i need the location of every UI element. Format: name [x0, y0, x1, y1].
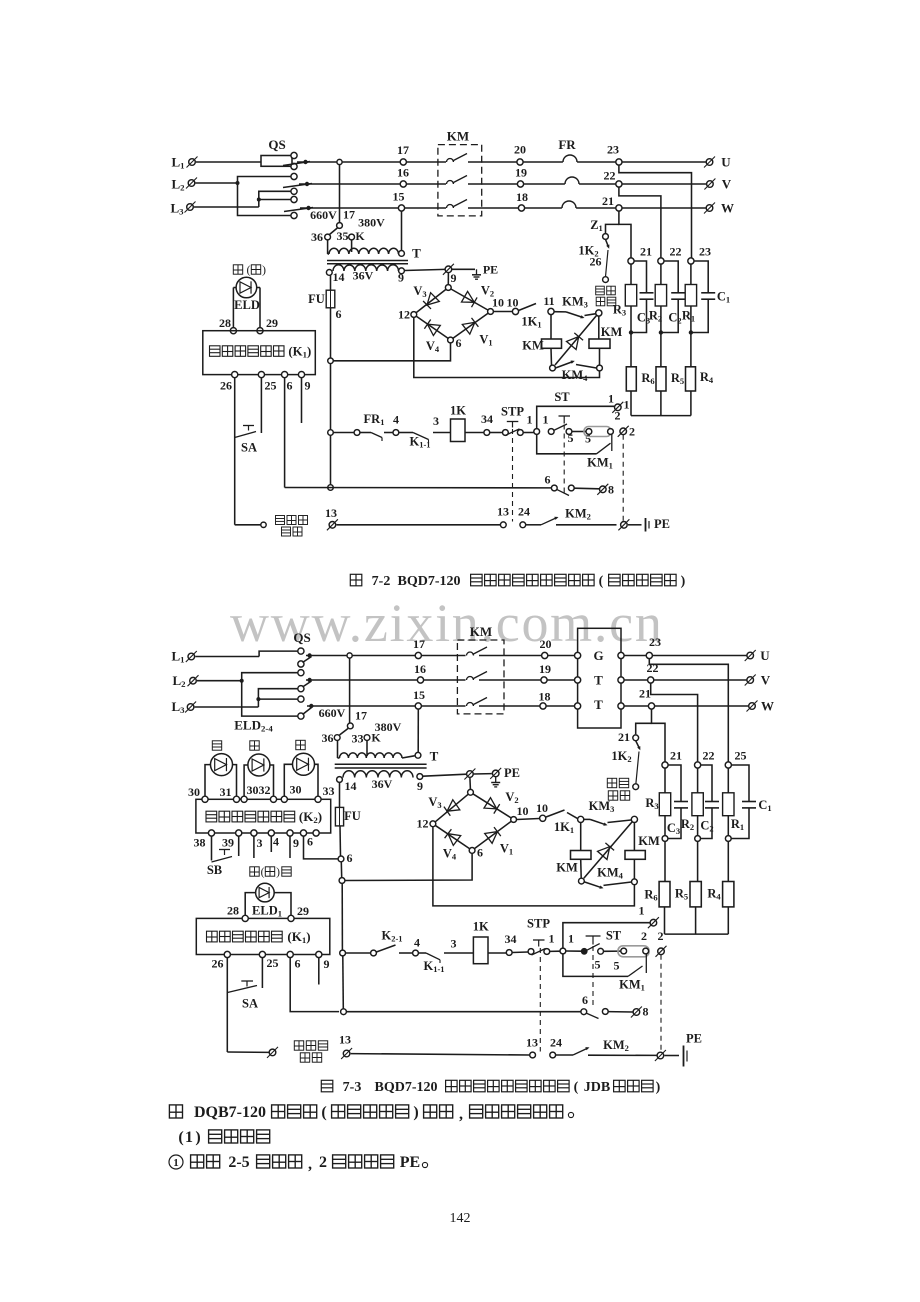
svg-text:26: 26: [590, 255, 602, 269]
svg-text:K1-1: K1-1: [409, 435, 430, 450]
wire: [580, 859, 583, 878]
node 34: [484, 430, 490, 436]
node 21 plug: [633, 735, 639, 741]
svg-text:K: K: [355, 229, 365, 243]
svg-text:V: V: [761, 673, 771, 688]
transformer T primary lead left: [327, 240, 329, 254]
box K1 leakage interlock: [203, 331, 315, 375]
wire to plug 1: [537, 406, 615, 428]
node 22 network fig3: [695, 762, 701, 768]
wire 9 stub fig3: [318, 958, 320, 985]
bridge edge 6-10: [451, 312, 491, 341]
capacitor plates fig3: [674, 801, 688, 803]
svg-text:1K1: 1K1: [554, 820, 574, 835]
node 21 network: [628, 258, 634, 264]
svg-text:12: 12: [417, 817, 429, 831]
node KM4 right: [597, 365, 603, 371]
contact KM3 fig3: [584, 818, 590, 820]
wire: [550, 950, 560, 952]
svg-text:(: (: [574, 1080, 579, 1095]
wire: [399, 952, 413, 954]
wire resistor to junction: [660, 306, 662, 331]
node gate junction: [578, 816, 584, 822]
svg-text:17: 17: [355, 709, 367, 723]
wire coil to node: [550, 348, 553, 365]
button STP dashed: [512, 429, 514, 522]
junction control row: [328, 430, 334, 436]
relay FR heater 2: [565, 177, 579, 184]
terminal 36 fig3: [334, 735, 340, 741]
lamp leads: [205, 765, 211, 800]
wire 15 down: [417, 709, 419, 752]
svg-text:36: 36: [322, 731, 334, 745]
wire secondary to PE node: [404, 269, 444, 270]
thyristor V: [555, 316, 597, 366]
wire R6 bottom: [630, 391, 632, 416]
switch ST actuator: [559, 415, 571, 417]
terminal V: [704, 179, 715, 190]
svg-text:2: 2: [319, 1154, 327, 1171]
wire 21 split: [652, 709, 666, 762]
node 11: [548, 308, 554, 314]
node: [544, 949, 550, 955]
svg-text:16: 16: [397, 166, 409, 180]
svg-text:22: 22: [670, 245, 682, 259]
junction 6 fig3: [338, 856, 344, 862]
svg-text:11: 11: [543, 294, 554, 308]
svg-text:9: 9: [417, 779, 423, 793]
svg-text:10: 10: [517, 804, 529, 818]
wire negative rail: [414, 318, 600, 378]
resistor R4: [686, 367, 696, 391]
wire 25 down: [260, 378, 262, 433]
wire 11 to coil KM: [550, 315, 552, 339]
dashed plug2 down fig3: [660, 955, 662, 1052]
svg-text:T: T: [430, 749, 439, 764]
resistor R6 fig3: [659, 882, 670, 907]
svg-text:23: 23: [607, 143, 619, 157]
relay 1K coil: [451, 419, 466, 442]
wire: [351, 1054, 530, 1055]
svg-text:17: 17: [413, 637, 425, 651]
wire junction down: [660, 333, 662, 367]
transformer T primary winding: [329, 248, 399, 254]
wire 26 down: [234, 378, 236, 525]
svg-text:10: 10: [536, 801, 548, 815]
plug node 1 fig3: [648, 917, 659, 928]
wire: [346, 952, 371, 954]
contactor KM main contact: [447, 181, 454, 185]
svg-text:20: 20: [540, 637, 552, 651]
svg-text:): ): [195, 1129, 200, 1146]
svg-text:7-2: 7-2: [372, 574, 391, 589]
node 5a fig3: [598, 948, 604, 954]
plug node 2: [618, 426, 629, 437]
svg-text:SB: SB: [207, 863, 222, 877]
wire R5 bottom: [660, 391, 662, 416]
node 12 fig3: [430, 821, 436, 827]
wire capacitor to junction: [633, 299, 647, 332]
svg-text:7-3: 7-3: [343, 1080, 362, 1095]
transformer T core: [327, 260, 408, 262]
node 34 fig3: [506, 950, 512, 956]
svg-text:36V: 36V: [353, 269, 374, 283]
svg-text:22: 22: [604, 169, 616, 183]
wire FR to 23: [577, 161, 616, 163]
capacitor plates fig3: [705, 801, 719, 803]
contact KM2: [526, 524, 541, 526]
bridge edge 9-12: [414, 288, 449, 315]
bridge edge 12-6: [414, 315, 451, 341]
svg-text:K1-1: K1-1: [423, 959, 444, 974]
wire 23 to col 25: [649, 659, 728, 762]
wire phase1: [306, 655, 466, 657]
svg-text:21: 21: [670, 749, 682, 763]
wire node-capacitor: [731, 765, 749, 801]
wire node to capacitor: [634, 261, 646, 293]
svg-text:28: 28: [227, 904, 239, 918]
node: [540, 815, 546, 821]
node: [643, 948, 649, 954]
device GTT box: [578, 628, 621, 728]
K2 bottom terminals: [208, 830, 214, 836]
contact K1-1: [413, 433, 429, 440]
node 10 right: [488, 309, 494, 315]
wire L3 to QS: [194, 206, 259, 208]
relay 1K coil fig3: [473, 937, 488, 964]
svg-text:L3: L3: [170, 201, 184, 217]
svg-text:2-5: 2-5: [228, 1154, 249, 1171]
svg-text:C1: C1: [758, 798, 771, 813]
label white: [296, 740, 305, 749]
junction rail fig3: [339, 878, 345, 884]
svg-text:Z1: Z1: [590, 218, 603, 233]
body line 3: [169, 1155, 183, 1169]
svg-text:660V: 660V: [319, 706, 346, 720]
wire FU down: [330, 308, 332, 430]
plug node 8 fig3: [631, 1007, 642, 1018]
svg-text:R6: R6: [641, 371, 654, 386]
terminal 36: [325, 234, 331, 240]
svg-text:R4: R4: [700, 370, 714, 385]
wire phase2 QS to KM: [299, 183, 446, 185]
contactor KM contact fig3: [467, 703, 474, 707]
wire down: [697, 841, 699, 881]
svg-text:33: 33: [352, 732, 364, 746]
contact KM3: [566, 312, 583, 318]
svg-text:FU: FU: [308, 292, 325, 306]
wire node-capacitor: [668, 765, 681, 801]
svg-text:4: 4: [414, 936, 420, 950]
wire to plug1 fig3: [563, 923, 650, 948]
svg-text:13: 13: [526, 1036, 538, 1050]
GTT right terminals: [618, 652, 624, 658]
wire node to resistor: [690, 264, 692, 284]
caption figure 7-3: [321, 1080, 660, 1095]
svg-text:ST: ST: [554, 390, 570, 404]
svg-text:5: 5: [614, 959, 620, 973]
wire: [399, 432, 413, 434]
svg-text:V4: V4: [443, 847, 457, 862]
svg-text:25: 25: [735, 749, 747, 763]
svg-text:STP: STP: [527, 917, 550, 931]
svg-text:KM: KM: [556, 861, 578, 875]
svg-text:R1: R1: [682, 309, 695, 324]
bridge edges fig3: [433, 792, 471, 824]
capacitor C2 plates: [671, 292, 685, 294]
svg-text:19: 19: [539, 662, 551, 676]
fuse FU fig3: [335, 807, 343, 826]
wire to Z1: [606, 224, 619, 233]
blade: [586, 1013, 599, 1019]
svg-text:15: 15: [393, 190, 405, 204]
svg-text:KM: KM: [447, 129, 469, 144]
wire 23-U: [652, 655, 747, 657]
box K2 semiconductor protect: [196, 799, 331, 833]
contact KM4 fig3: [584, 882, 602, 888]
node: [608, 429, 614, 435]
wire resistor-junction: [727, 816, 729, 836]
wire to ground: [452, 268, 475, 270]
svg-text:KM3: KM3: [589, 799, 615, 814]
svg-text:25: 25: [265, 379, 277, 393]
wire 22 to network col2: [619, 187, 661, 258]
svg-text:KM4: KM4: [562, 368, 589, 383]
svg-text:K2-1: K2-1: [381, 929, 402, 944]
switch QS blade 1: [283, 162, 310, 166]
wire: [604, 950, 621, 952]
node tap: [337, 223, 343, 229]
node 9 slashed: [443, 264, 454, 275]
svg-text:13: 13: [497, 505, 509, 519]
wire node to resistor: [630, 264, 632, 284]
svg-text:35: 35: [337, 229, 349, 243]
svg-text:R5: R5: [675, 887, 688, 902]
contactor KM contact fig3: [467, 652, 474, 656]
switch QS pole 3 bracket: [259, 191, 291, 207]
svg-text:KM1: KM1: [619, 978, 645, 993]
node 21 network fig3: [662, 762, 668, 768]
terminal V fig3: [745, 675, 756, 686]
svg-text:142: 142: [450, 1211, 471, 1226]
wire down: [664, 841, 666, 881]
svg-text:V: V: [722, 177, 732, 192]
svg-text:KM: KM: [522, 339, 544, 353]
diode V3 fig3: [447, 800, 460, 811]
svg-text:10: 10: [507, 296, 519, 310]
svg-text:21: 21: [639, 687, 651, 701]
contact 1K1: [519, 304, 537, 311]
wire: [665, 1055, 680, 1057]
contact KM2 fig3: [556, 1054, 573, 1056]
wire node-capacitor: [701, 765, 712, 801]
svg-text:8: 8: [608, 483, 614, 497]
wire network bottom rail: [631, 415, 691, 417]
wire tap down: [349, 658, 351, 723]
wire phase3: [307, 705, 466, 707]
svg-text:T: T: [412, 246, 421, 261]
wire FU down fig3: [339, 826, 342, 856]
node: [354, 430, 360, 436]
svg-text:DQB7-120: DQB7-120: [194, 1104, 266, 1121]
transformer primary lead left: [337, 741, 339, 759]
svg-text:T: T: [594, 673, 603, 688]
svg-text:KM: KM: [638, 834, 660, 848]
svg-text:6: 6: [545, 473, 551, 487]
plug node PE row: [618, 519, 629, 530]
svg-text:(: (: [321, 1104, 326, 1121]
svg-text:R3: R3: [645, 796, 658, 811]
svg-text:9: 9: [451, 271, 457, 285]
node junction L1 tap: [347, 653, 352, 658]
svg-text:(K2): (K2): [299, 809, 322, 825]
svg-text:KM2: KM2: [565, 507, 591, 522]
svg-text:): ): [262, 263, 266, 277]
svg-text:PE: PE: [504, 766, 520, 780]
svg-text:STP: STP: [501, 405, 524, 419]
svg-text:): ): [276, 867, 280, 879]
svg-text:6: 6: [477, 846, 483, 860]
switch QS pole2 bracket: [242, 673, 298, 716]
wire capacitor-junction: [667, 808, 681, 839]
svg-text:,: ,: [308, 1156, 312, 1173]
svg-text:ST: ST: [606, 929, 622, 943]
node 9 top: [445, 285, 451, 291]
svg-text:10: 10: [492, 296, 504, 310]
wire 20 to FR: [523, 161, 563, 163]
svg-text:39: 39: [222, 836, 234, 850]
wire bridge6 left: [345, 854, 473, 881]
svg-text:G: G: [593, 648, 603, 663]
switch ST actuator fig3: [586, 935, 601, 937]
svg-text:9: 9: [293, 836, 299, 850]
svg-text:24: 24: [518, 505, 530, 519]
junction dot: [659, 330, 663, 334]
GTT left terminals: [575, 652, 581, 658]
node PE slashed: [490, 768, 501, 779]
svg-text:34: 34: [505, 932, 517, 946]
voltage selector blade 36: [330, 228, 338, 235]
svg-text:(K1): (K1): [288, 345, 311, 360]
svg-text:21: 21: [640, 245, 652, 259]
svg-text:1: 1: [568, 932, 574, 946]
svg-text:W: W: [761, 699, 774, 714]
resistor R2 body: [655, 285, 666, 307]
wire: [465, 432, 484, 434]
wire to PE: [628, 524, 642, 526]
wire 22-V: [654, 679, 747, 681]
blade1: [303, 657, 312, 663]
node detect: [261, 522, 266, 527]
svg-text:SA: SA: [241, 441, 257, 455]
wire junction down: [630, 333, 632, 367]
node 1: [534, 429, 540, 435]
svg-text:C3: C3: [667, 821, 680, 836]
contactor KM dashed box fig3: [457, 640, 504, 714]
wire tap vertical: [339, 165, 341, 223]
core fig3: [335, 763, 427, 765]
coil KM left fig3: [571, 851, 592, 860]
STP dashed fig3: [539, 948, 541, 1052]
capacitor C3 plates: [640, 292, 654, 294]
blade 36: [340, 729, 349, 736]
svg-text:(: (: [178, 1129, 183, 1146]
svg-text:22: 22: [647, 661, 659, 675]
coil KM right fig3: [625, 851, 645, 860]
svg-text:(: (: [261, 867, 265, 879]
switch ST dashed: [563, 425, 565, 496]
svg-text:PE: PE: [686, 1032, 702, 1046]
transformer T secondary right node: [399, 268, 405, 274]
wire 23 to network col3: [619, 165, 692, 258]
svg-text:23: 23: [649, 635, 661, 649]
svg-text:5: 5: [568, 431, 574, 445]
diode V2: [462, 291, 475, 302]
node 12 left: [411, 312, 417, 318]
svg-text:R5: R5: [671, 371, 684, 386]
svg-text:PE: PE: [400, 1154, 420, 1171]
svg-text:14: 14: [333, 270, 345, 284]
wire: [523, 432, 534, 434]
node leakage detect: [603, 277, 609, 283]
wire FU down 2: [330, 435, 332, 487]
wire 6 down: [284, 378, 286, 488]
wire: [479, 655, 542, 657]
coil KM left: [542, 339, 562, 348]
svg-text:33: 33: [323, 784, 335, 798]
svg-text:1: 1: [608, 392, 614, 406]
wire: [474, 773, 492, 775]
wire phase2: [306, 679, 466, 681]
svg-text:6: 6: [582, 993, 588, 1007]
label to-leakage-detect fig3: [294, 1041, 303, 1050]
relay FR heater 1: [563, 155, 577, 162]
svg-text:3032: 3032: [247, 783, 271, 797]
wire: [341, 883, 343, 950]
wire: [433, 432, 451, 434]
contact 1K2: [606, 239, 609, 247]
node 17 junction on L1: [337, 159, 342, 164]
svg-text:V2: V2: [505, 790, 518, 805]
diode V4 fig3: [448, 834, 461, 846]
node 5a: [566, 429, 572, 435]
blade3: [303, 708, 312, 715]
wire 21-W: [655, 705, 749, 707]
svg-text:28: 28: [219, 316, 231, 330]
lamp ELD: [236, 277, 257, 298]
svg-text:29: 29: [297, 904, 309, 918]
wire: [567, 813, 578, 819]
wire 25 down fig3: [261, 958, 263, 988]
terminal 6: [282, 372, 288, 378]
junction: [695, 836, 701, 842]
node 4 fig3: [413, 950, 419, 956]
wire: [556, 524, 617, 526]
transformer T primary lead tap: [351, 240, 353, 252]
resistor R1 body: [685, 285, 696, 307]
svg-text:V4: V4: [426, 339, 440, 354]
svg-text:3: 3: [257, 836, 263, 850]
node 23 network: [688, 258, 694, 264]
wire secondary14 down fig3: [339, 782, 341, 807]
wire to coil: [580, 823, 582, 851]
wire 26 to detect: [235, 524, 261, 526]
junction control fig3: [340, 950, 346, 956]
wire L3: [195, 706, 259, 708]
ground symbol: [476, 269, 478, 275]
svg-text:36V: 36V: [372, 777, 393, 791]
wire L2: [197, 680, 242, 682]
